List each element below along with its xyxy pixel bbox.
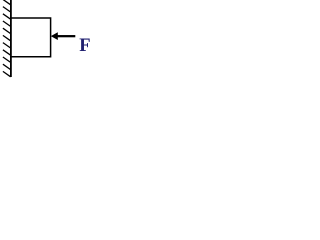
svg-text:F: F — [79, 36, 90, 56]
